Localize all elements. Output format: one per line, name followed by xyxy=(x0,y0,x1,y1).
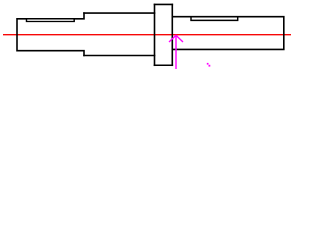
magenta diagonal tick mark xyxy=(207,63,209,65)
shaft right journal outline xyxy=(172,17,283,50)
keyway slot (right journal) xyxy=(191,17,238,21)
shaft left journal outline xyxy=(17,13,84,55)
shoulder collar outline xyxy=(155,4,173,65)
middle shaft section outline xyxy=(84,13,155,55)
leader arrow (magenta) pointing at centerline xyxy=(169,35,183,69)
keyway slot interior (white) xyxy=(27,20,73,21)
keyway slot (left journal) xyxy=(27,19,75,22)
centerline (red) xyxy=(3,34,291,36)
